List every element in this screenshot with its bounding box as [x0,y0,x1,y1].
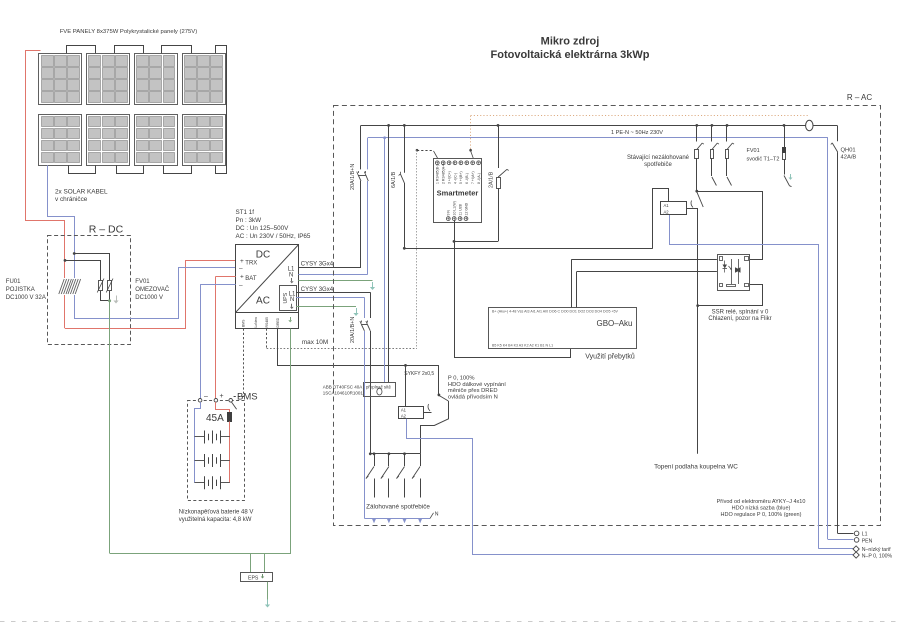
svg-text:CYSY 3Gx4: CYSY 3Gx4 [301,262,334,268]
svg-text:–: – [239,282,243,289]
svg-text:8 -I(A-): 8 -I(A-) [477,173,481,184]
svg-text:svodič T1–T2: svodič T1–T2 [747,157,780,163]
svg-text:Přívod od elektroměru AYKY–J 4: Přívod od elektroměru AYKY–J 4x10 [717,499,806,505]
svg-text:využitelná kapacita: 4,8 kW: využitelná kapacita: 4,8 kW [179,517,252,523]
svg-text:1 PE-N ~ 50Hz 230V: 1 PE-N ~ 50Hz 230V [611,130,663,136]
svg-text:FVE PANELY 8x375W Polykrystali: FVE PANELY 8x375W Polykrystalické panely… [60,29,198,35]
svg-text:DC: DC [256,250,270,261]
svg-text:CYSY 3Gx4: CYSY 3Gx4 [301,287,334,293]
svg-text:A2: A2 [401,414,407,419]
svg-text:N: N [289,272,293,278]
svg-text:2x SOLAR KABEL: 2x SOLAR KABEL [55,188,108,195]
svg-text:v chráničce: v chráničce [55,196,88,203]
svg-text:BMS: BMS [237,392,258,403]
svg-text:A1: A1 [401,407,407,412]
svg-text:2A/1/B: 2A/1/B [489,171,495,188]
svg-text:Smartmeter: Smartmeter [437,188,479,197]
svg-text:Fotovoltaická elektrárna 3kWp: Fotovoltaická elektrárna 3kWp [491,49,650,61]
svg-text:měniče přes DRED: měniče přes DRED [448,388,498,394]
svg-text:9 N: 9 N [447,210,451,216]
svg-text:PEN: PEN [862,538,873,544]
svg-text:HDO regulace P 0, 100% (green): HDO regulace P 0, 100% (green) [721,512,802,518]
svg-text:HDO dálkové vypínání: HDO dálkové vypínání [448,382,506,388]
svg-text:+: + [240,274,244,281]
svg-text:7 +I(A+): 7 +I(A+) [471,171,475,184]
svg-text:ST1 1f: ST1 1f [236,209,255,216]
svg-text:FV01: FV01 [747,148,760,154]
svg-text:10 L1(W): 10 L1(W) [453,201,457,215]
svg-text:TRX: TRX [245,260,257,266]
svg-text:Využití přebytků: Využití přebytků [585,353,635,361]
svg-text:ovládá přívodsím N: ovládá přívodsím N [448,395,498,401]
svg-text:6 -I(B-): 6 -I(B-) [465,173,469,184]
svg-text:45A: 45A [206,413,224,424]
svg-text:–: – [204,393,208,400]
svg-text:N–nízký tarif: N–nízký tarif [862,547,891,553]
svg-text:DRED: DRED [276,317,280,327]
svg-text:B5 K5 K4 B4 K3 A3 K2 A2: B5 K5 K4 B4 K3 A3 K2 A2 K1 B1 N L1 [492,343,553,347]
svg-text:R – AC: R – AC [847,93,873,102]
svg-text:42A/B: 42A/B [841,155,857,161]
svg-text:Mikro zdroj: Mikro zdroj [541,35,600,47]
svg-text:DC1000 V: DC1000 V [135,295,163,301]
svg-text:11 U2B: 11 U2B [458,203,462,215]
svg-text:4 -I(C-): 4 -I(C-) [453,173,457,184]
svg-text:FU01: FU01 [6,279,21,285]
svg-text:5 +I(B+): 5 +I(B+) [459,171,463,184]
svg-text:max 10M: max 10M [302,339,328,346]
svg-text:A2: A2 [664,210,670,215]
svg-text:RS485: RS485 [265,317,269,327]
svg-text:B+ (Aku+) 4-48 Vss AI3 AI: B+ (Aku+) 4-48 Vss AI3 AI1 AI1 AI0 DO6 C… [492,309,619,313]
svg-text:SYKFY 2x0,5: SYKFY 2x0,5 [404,371,434,377]
svg-text:Pn : 3kW: Pn : 3kW [236,217,262,224]
svg-text:spotřebiče: spotřebiče [644,162,672,168]
svg-text:Chlazení, pozor na Flikr: Chlazení, pozor na Flikr [708,316,771,322]
svg-text:N–P 0, 100%: N–P 0, 100% [862,553,893,559]
svg-text:ABB DT40FSC 40A: ABB DT40FSC 40A [323,384,363,389]
svg-text:N: N [290,297,294,303]
svg-text:FV01: FV01 [135,279,150,285]
svg-text:+: + [220,393,224,400]
svg-text:1 RS485(B-): 1 RS485(B-) [436,165,440,184]
svg-text:LxNew: LxNew [254,317,258,328]
svg-text:DC1000 V 32A: DC1000 V 32A [6,295,46,301]
svg-text:2 RS485(A+): 2 RS485(A+) [442,164,446,184]
svg-text:3 +I(C+): 3 +I(C+) [447,171,451,184]
svg-text:20A/1/B+N: 20A/1/B+N [350,317,356,343]
svg-text:20A/1/B+N: 20A/1/B+N [350,164,356,190]
svg-text:AC : Un 230V / 50Hz, IP65: AC : Un 230V / 50Hz, IP65 [236,233,311,240]
svg-text:L1: L1 [862,532,868,538]
svg-text:A1: A1 [664,203,670,208]
svg-text:OMEZOVAČ: OMEZOVAČ [135,286,170,293]
svg-text:Topení podlaha koupelna WC: Topení podlaha koupelna WC [654,464,738,471]
svg-text:DC : Un 125–500V: DC : Un 125–500V [236,225,290,232]
svg-text:BMS: BMS [242,319,246,327]
svg-text:GBO–Aku: GBO–Aku [596,319,632,328]
svg-text:Zálohované spotřebiče: Zálohované spotřebiče [366,504,430,511]
svg-text:SSR relé, spínání v 0: SSR relé, spínání v 0 [712,309,769,315]
svg-text:–: – [239,265,243,272]
svg-text:QH01: QH01 [841,148,856,154]
svg-text:Nízkonapěťová baterie 48 V: Nízkonapěťová baterie 48 V [179,510,254,516]
svg-text:1SCA104610R1001: 1SCA104610R1001 [323,391,364,396]
svg-text:POJISTKA: POJISTKA [6,287,35,293]
svg-text:AC: AC [256,296,270,307]
svg-text:N: N [435,512,439,518]
svg-text:P 0, 100%: P 0, 100% [448,375,475,381]
svg-text:6A/1/B: 6A/1/B [391,171,397,188]
svg-text:HDO nízká sazba (blue): HDO nízká sazba (blue) [732,506,791,512]
svg-text:12 GND: 12 GND [464,202,468,215]
svg-text:BAT: BAT [245,276,257,282]
svg-text:EPS: EPS [248,576,259,582]
svg-text:+: + [240,258,244,265]
svg-text:Stávající nezálohované: Stávající nezálohované [627,155,690,161]
svg-text:R – DC: R – DC [89,223,124,235]
